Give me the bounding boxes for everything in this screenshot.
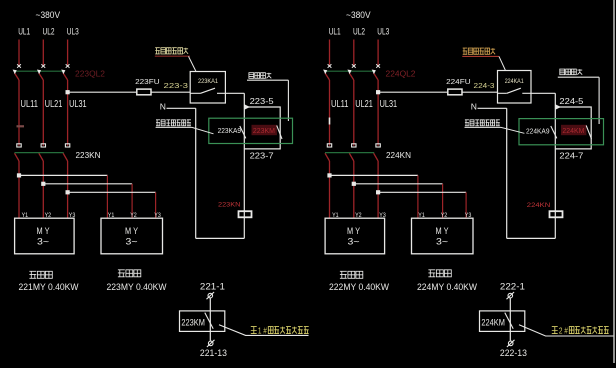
label brake (box2) (left) (118, 270, 141, 277)
svg-text:UL31: UL31 (380, 99, 398, 110)
wire phase 1 middle (right) (329, 80, 331, 146)
N wire bottom horizontal (right) (507, 237, 556, 239)
dark red highlight behind 223KM (252, 125, 277, 135)
svg-text:Y3: Y3 (465, 212, 472, 219)
svg-text:223-7: 223-7 (250, 152, 275, 161)
KM contact blade (277, 126, 282, 140)
pointer line to KA9 (192, 127, 214, 133)
svg-text:223KN: 223KN (218, 201, 241, 208)
svg-text:224-5: 224-5 (559, 97, 584, 106)
breaker linkage line (right) (325, 70, 375, 72)
svg-text:UL21: UL21 (45, 99, 63, 110)
drop wire to motor 2 terminal Y1 (left) (106, 175, 108, 218)
svg-text:M Y: M Y (347, 226, 360, 236)
contactor contact square pole 2 (left) (41, 144, 45, 147)
distribution wire 3 (right) (378, 191, 466, 193)
svg-text:UL11: UL11 (331, 99, 349, 110)
KA9 contact blade (240, 126, 246, 138)
wire phase 1 lower (left) (18, 161, 20, 218)
svg-text:Y2: Y2 (130, 212, 137, 219)
contactor contact square pole 2 (right) (352, 144, 356, 147)
green group box 223 (209, 118, 293, 143)
svg-text:1 #: 1 # (258, 327, 267, 336)
wire through 224KM contact (509, 298, 511, 340)
destination label (224KM) (552, 327, 558, 334)
svg-text:223KN: 223KN (76, 151, 101, 160)
junction dot phase 1 (left) (17, 174, 20, 177)
svg-text:UL2: UL2 (353, 26, 365, 36)
svg-text:223KM: 223KM (253, 128, 275, 135)
svg-text:224MY 0.40KW: 224MY 0.40KW (417, 282, 477, 292)
green group box 224 (519, 119, 604, 145)
svg-text:N: N (471, 102, 477, 112)
svg-text:~380V: ~380V (346, 10, 371, 20)
terminal symbol top (224KM) (508, 293, 513, 298)
pointer line to KA1 box (right) (499, 56, 506, 70)
svg-text:224QL2: 224QL2 (386, 69, 417, 78)
contactor blade pole 2 (left) (39, 153, 44, 161)
svg-text:Y2: Y2 (441, 212, 448, 219)
drop wire to motor 2 terminal Y3 (right) (465, 192, 467, 218)
faint tick on left pole 1 wire (17, 125, 25, 127)
wire phase 3 lower (right) (377, 161, 379, 218)
KA1 contact right stub (217, 92, 225, 94)
motor box 221MY (left) (15, 218, 75, 254)
junction dot tap UL31 (66, 91, 69, 94)
note from power protection (right) (463, 48, 495, 54)
note from power protection (155, 48, 188, 54)
svg-text:Y1: Y1 (22, 212, 29, 219)
contactor blade pole 1 (left) (15, 153, 20, 161)
breaker blade pole 1 (left) (15, 73, 20, 80)
distribution wire 3 (left) (68, 191, 156, 193)
svg-text:UL11: UL11 (21, 99, 39, 110)
dark red highlight behind 224KM (561, 125, 586, 135)
N wire vertical (right) (506, 108, 508, 238)
breaker x-mark pole 1 (left) (17, 64, 21, 68)
breaker blade pole 3 (right) (374, 73, 379, 80)
breaker blade pole 3 (left) (63, 73, 68, 80)
note from main motor circuit (right) (465, 120, 500, 126)
KA1 contact right stub (right) (522, 92, 531, 94)
wire phase 1 lower (right) (329, 161, 331, 218)
wire phase 2 middle (right) (353, 80, 355, 146)
svg-text:UL3: UL3 (67, 26, 79, 36)
junction dot tap UL31 (right) (377, 91, 380, 94)
underline of note motor circuit (right) (465, 126, 502, 128)
KA1 contact left stub (right) (498, 92, 507, 94)
svg-text:3~: 3~ (126, 237, 138, 247)
accident protection wire horizontal (247, 79, 288, 81)
wire through 223KM contact (209, 298, 211, 340)
bright segment on right pole 1 wire (329, 118, 331, 125)
contactor contact square pole 1 (left) (17, 144, 21, 147)
contactor linkage line (right) (325, 152, 374, 154)
terminal symbol bottom (224KM) (508, 341, 513, 346)
contact frame box (223KM aux) (244, 107, 280, 149)
distribution wire 1 (left) (19, 174, 107, 176)
breaker x-mark pole 3 (left) (66, 64, 70, 68)
pointer line to KA9 (right) (501, 127, 524, 133)
accident protection wire vertical (287, 80, 289, 121)
label brake (box2) (right) (428, 270, 451, 277)
N wire bottom horizontal (196, 237, 245, 239)
breaker blade arrow pole 3 (right) (372, 70, 376, 75)
main control wire vertical (right) (554, 93, 556, 238)
svg-text:UL2: UL2 (43, 26, 55, 36)
svg-text:Y3: Y3 (379, 212, 386, 219)
contactor linkage line (left) (15, 152, 64, 154)
KA9 contact blade (right) (551, 126, 557, 138)
svg-text:222-1: 222-1 (500, 281, 525, 291)
svg-text:223KA9: 223KA9 (218, 128, 242, 135)
svg-text:222MY 0.40KW: 222MY 0.40KW (329, 282, 389, 292)
breaker x-mark pole 2 (left) (41, 64, 45, 68)
note accident protection (right) (560, 69, 582, 75)
main control wire vertical (243, 93, 245, 238)
distribution wire 2 (left) (43, 183, 132, 185)
contactor blade pole 1 (right) (325, 153, 330, 161)
motor box 223MY (left) (101, 218, 163, 254)
svg-text:221-13: 221-13 (200, 348, 227, 358)
svg-text:223-5: 223-5 (250, 97, 275, 106)
wire phase 2 upper (left) (42, 40, 44, 66)
contact box 224KM (480, 311, 525, 332)
thermal element 223KN symbol (239, 211, 252, 217)
relay box 224KA1 (498, 71, 532, 104)
svg-text:UL3: UL3 (377, 26, 389, 36)
N wire horizontal (right) (478, 107, 507, 109)
junction dot phase 3 (right) (377, 191, 380, 194)
pointer line to destination (223KM) (219, 325, 309, 336)
svg-text:N: N (160, 102, 166, 112)
svg-text:Y2: Y2 (355, 212, 362, 219)
svg-text:222-13: 222-13 (500, 348, 527, 358)
wire fuse to KA1 box (right) (462, 91, 498, 93)
contactor contact square pole 3 (left) (65, 144, 69, 147)
underline of note (155, 55, 190, 57)
drawing frame border line at right edge (613, 0, 615, 363)
breaker blade arrow pole 3 (left) (61, 70, 65, 75)
svg-text:Y3: Y3 (69, 212, 76, 219)
wire phase 3 lower (left) (67, 161, 69, 218)
contact box 223KM (180, 311, 225, 332)
drop wire to motor 2 terminal Y2 (right) (442, 184, 444, 218)
contactor blade pole 3 (left) (63, 153, 68, 161)
svg-text:224KA1: 224KA1 (505, 78, 524, 85)
svg-text:M Y: M Y (125, 226, 138, 236)
breaker x-mark pole 3 (right) (376, 64, 380, 68)
pointer line to KA1 box (189, 56, 197, 71)
svg-text:223QL2: 223QL2 (75, 69, 106, 78)
label brake (box1) (right) (340, 271, 363, 278)
wire KA1 to node 223-5 (225, 92, 244, 94)
svg-text:224-7: 224-7 (559, 152, 584, 161)
fuse 224FU symbol (448, 89, 462, 95)
contact frame box (224KM aux) (555, 107, 591, 149)
distribution wire 1 (right) (330, 174, 418, 176)
accident protection wire horizontal (right) (558, 76, 599, 78)
thermal element 224KN symbol (550, 211, 563, 217)
junction arrow at KM box (244, 104, 250, 110)
distribution wire 2 (right) (354, 183, 443, 185)
motor box 224MY (right) (412, 218, 474, 254)
svg-text:UL1: UL1 (18, 26, 30, 36)
contactor contact square pole 1 (right) (327, 144, 331, 147)
svg-text:UL21: UL21 (355, 99, 373, 110)
wire phase 3 middle (left) (67, 80, 69, 146)
svg-text:223-3: 223-3 (164, 81, 189, 90)
contactor blade pole 3 (right) (374, 153, 379, 161)
junction arrow at KM box (right) (555, 104, 561, 110)
KA1 contact blade (right) (507, 88, 521, 93)
KM contact blade (right) (586, 126, 591, 140)
wire phase 2 middle (left) (42, 80, 44, 146)
drop wire to motor 2 terminal Y2 (left) (131, 184, 133, 218)
breaker blade arrow pole 2 (right) (347, 70, 351, 75)
note accident protection (249, 73, 271, 79)
223KM contact blade (205, 313, 213, 329)
svg-text:221MY 0.40KW: 221MY 0.40KW (19, 282, 79, 292)
pointer line to destination (224KM) (519, 325, 614, 336)
junction dot phase 3 (left) (66, 191, 69, 194)
svg-text:224-3: 224-3 (474, 81, 495, 90)
wire phase 3 upper (left) (67, 40, 69, 66)
svg-text:Y2: Y2 (45, 212, 52, 219)
svg-text:221-1: 221-1 (200, 281, 225, 291)
wire phase 2 lower (left) (42, 161, 44, 218)
wire phase 2 upper (right) (353, 40, 355, 66)
N wire horizontal (167, 107, 196, 109)
svg-text:Y1: Y1 (332, 212, 339, 219)
junction dot phase 2 (right) (352, 182, 355, 185)
svg-text:~380V: ~380V (36, 10, 61, 20)
breaker x-mark pole 2 (right) (352, 64, 356, 68)
wire phase 3 upper (right) (377, 40, 379, 66)
svg-text:223KA1: 223KA1 (198, 78, 218, 85)
breaker blade pole 1 (right) (325, 73, 330, 80)
svg-text:224KM: 224KM (562, 128, 584, 135)
breaker blade pole 2 (right) (349, 73, 354, 80)
KA1 contact left stub (190, 92, 200, 94)
svg-text:3~: 3~ (348, 237, 360, 247)
svg-text:2 #: 2 # (559, 327, 568, 336)
svg-text:224KN: 224KN (386, 151, 411, 160)
underline of note motor circuit (156, 126, 192, 128)
breaker blade arrow pole 2 (left) (37, 70, 41, 75)
note from main motor circuit (156, 120, 191, 126)
svg-text:223KM: 223KM (181, 318, 205, 329)
svg-text:M Y: M Y (37, 226, 50, 236)
svg-text:3~: 3~ (37, 237, 49, 247)
wire phase 3 middle (right) (377, 80, 379, 146)
svg-text:224FU: 224FU (446, 77, 471, 86)
accident protection wire vertical (right) (598, 77, 600, 124)
svg-text:224KM: 224KM (481, 318, 505, 329)
breaker blade arrow pole 1 (left) (13, 70, 17, 75)
wire phase 1 upper (left) (18, 40, 20, 66)
wire fuse to KA1 box (151, 91, 190, 93)
terminal symbol bottom (223KM) (208, 341, 213, 346)
destination label (223KM) (251, 327, 257, 334)
breaker blade arrow pole 1 (right) (323, 70, 327, 75)
label brake (box1) (left) (29, 271, 52, 278)
svg-text:UL31: UL31 (69, 99, 87, 110)
drop wire to motor 2 terminal Y3 (left) (155, 192, 157, 218)
svg-text:Y1: Y1 (108, 212, 115, 219)
wire phase 1 upper (right) (329, 40, 331, 66)
motor box 222MY (right) (325, 218, 385, 254)
svg-text:Y3: Y3 (154, 212, 161, 219)
svg-text:223MY 0.40KW: 223MY 0.40KW (107, 282, 167, 292)
wire UL31 to fuse (right) (378, 91, 448, 93)
svg-text:224KA9: 224KA9 (526, 129, 550, 136)
svg-text:3~: 3~ (436, 237, 448, 247)
underline of note (right) (462, 55, 499, 57)
fuse 223FU symbol (137, 89, 151, 95)
wire phase 1 middle (left) (18, 80, 20, 146)
wire KA1 to node 224-5 (531, 92, 555, 94)
terminal symbol top (223KM) (208, 293, 213, 298)
breaker linkage line (left) (14, 70, 64, 72)
svg-text:M Y: M Y (436, 226, 449, 236)
breaker blade pole 2 (left) (39, 73, 44, 80)
junction dot phase 1 (right) (328, 174, 331, 177)
224KM contact blade (505, 313, 513, 329)
wire phase 2 lower (right) (353, 161, 355, 218)
svg-text:223FU: 223FU (135, 77, 160, 86)
svg-text:Y1: Y1 (418, 212, 425, 219)
contactor blade pole 2 (right) (349, 153, 354, 161)
drop wire to motor 2 terminal Y1 (right) (417, 175, 419, 218)
svg-text:UL1: UL1 (329, 26, 341, 36)
KA1 contact blade (201, 88, 216, 93)
relay box 223KA1 (190, 72, 225, 104)
svg-text:224KN: 224KN (527, 202, 551, 209)
contactor contact square pole 3 (right) (376, 144, 380, 147)
breaker x-mark pole 1 (right) (328, 64, 332, 68)
N wire vertical (195, 108, 197, 238)
wire UL31 to fuse (68, 91, 137, 93)
junction dot phase 2 (left) (42, 182, 45, 185)
